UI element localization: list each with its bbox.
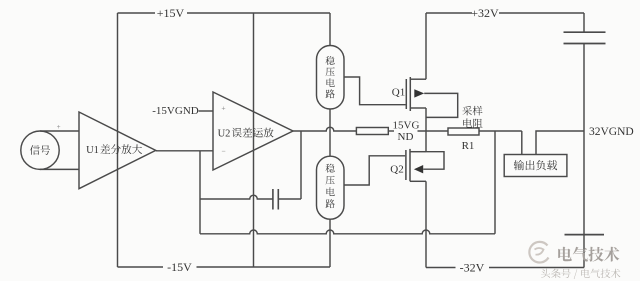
power rail +15V bbox=[118, 12, 156, 14]
op-amp U2 误差运放 bbox=[213, 92, 293, 170]
transistor Q1 gate bar bbox=[405, 79, 407, 109]
value label 采样电阻 bbox=[462, 106, 482, 116]
wire +32V rail to output capacitor bbox=[583, 13, 585, 32]
watermark logo circle bbox=[529, 242, 548, 263]
transistor Q1 drain lead bbox=[410, 78, 426, 80]
power rail +32V bbox=[426, 12, 472, 14]
svg-text:15VG: 15VG bbox=[393, 120, 420, 132]
svg-text:R1: R1 bbox=[462, 140, 475, 152]
transistor Q2 gate bar bbox=[405, 150, 407, 180]
wire capacitor to U2 output node bbox=[300, 131, 302, 199]
ground bar 32VGND termination bbox=[565, 234, 605, 236]
wire 32VGND bar to -32V rail bbox=[583, 235, 585, 268]
wire feedback branch vertical from U1-U2 net down bbox=[199, 151, 201, 234]
wire capacitor to 32VGND bar bbox=[583, 44, 585, 235]
wire capacitor left segment (hops U2 supply line) bbox=[200, 195, 273, 199]
wire load to 32VGND line bbox=[536, 131, 584, 155]
load box 输出负载 bbox=[504, 155, 567, 177]
watermark 电气技术 bbox=[558, 247, 619, 262]
wire U1 output to U2 inverting input bbox=[156, 150, 213, 152]
svg-text:Q1: Q1 bbox=[392, 86, 405, 98]
wire U2 output (hops regulator chain) bbox=[292, 127, 356, 131]
transistor Q2 channel bar bbox=[409, 149, 411, 181]
wire Q1 drain to +32V rail bbox=[425, 13, 427, 79]
transistor Q1 source lead bbox=[410, 107, 426, 109]
wire Q2 drain to -32V rail (hopped by return line) bbox=[425, 181, 427, 267]
wire 15VGND label to output node bbox=[418, 130, 449, 132]
svg-text:U1: U1 bbox=[86, 145, 99, 156]
wire output node down to load bbox=[521, 131, 523, 155]
wire R1 to load node bbox=[479, 130, 522, 132]
svg-text:+: + bbox=[221, 103, 225, 112]
regulator block 稳压电路 (top) bbox=[317, 46, 345, 110]
transistor Q1 channel bar bbox=[409, 77, 411, 111]
wire -15VGND to U2 non-inverting input bbox=[199, 110, 214, 112]
transistor Q2 body-source loop bbox=[423, 152, 444, 170]
wire top regulator to Q1 gate bbox=[345, 77, 406, 105]
svg-text:+32V: +32V bbox=[471, 6, 499, 20]
svg-text:32VGND: 32VGND bbox=[589, 126, 634, 138]
wire resistor to 15VGND label bbox=[388, 130, 394, 132]
wire bottom regulator to -15V rail (hops return line) bbox=[329, 219, 331, 267]
wire signal to U1 top input bbox=[40, 130, 79, 132]
wire top regulator to bottom regulator (crosses U2 output) bbox=[329, 109, 331, 156]
wire Q1 source to output node bbox=[425, 108, 427, 131]
wire signal to U1 bottom input bbox=[40, 168, 79, 170]
watermark 头条号/电气技术 bbox=[541, 269, 620, 279]
power rail -15V bbox=[118, 266, 164, 268]
capacitor C2 output plates bbox=[564, 31, 606, 33]
transistor Q2 drain lead bbox=[410, 180, 426, 182]
svg-text:-15V: -15V bbox=[167, 260, 192, 274]
wire capacitor right segment bbox=[278, 198, 301, 200]
svg-text:+15V: +15V bbox=[157, 6, 185, 20]
wire +15V rail down to top regulator bbox=[329, 13, 331, 46]
svg-text:−: − bbox=[221, 147, 225, 156]
svg-text:-15VGND: -15VGND bbox=[152, 105, 198, 117]
svg-text:U2: U2 bbox=[218, 129, 231, 140]
transistor Q1 body-source loop bbox=[424, 93, 458, 117]
transistor Q2 source lead bbox=[410, 151, 426, 153]
svg-text:ND: ND bbox=[398, 131, 414, 143]
wire U2 supply vertical (+15V to -15V through U2) bbox=[253, 13, 255, 267]
svg-text:+: + bbox=[57, 123, 61, 131]
power rail -32V bbox=[426, 267, 456, 269]
wire return line up to output node bbox=[494, 131, 496, 234]
signal source 信号 bbox=[21, 131, 59, 169]
svg-text:Q2: Q2 bbox=[390, 164, 403, 176]
transistor Q1 body arrow bbox=[414, 89, 424, 97]
wire Q2 source to output node bbox=[425, 131, 427, 152]
transistor Q2 body arrow bbox=[414, 165, 423, 173]
regulator block 稳压电路 (bottom) bbox=[317, 156, 345, 219]
resistor (U2 output series) bbox=[356, 128, 388, 135]
wire bottom regulator to Q2 gate bbox=[345, 156, 406, 185]
op-amp U1 差分放大 bbox=[79, 112, 156, 189]
svg-text:-32V: -32V bbox=[460, 261, 485, 275]
wire return line (15VGND return, hops crossing verticals) bbox=[200, 230, 495, 234]
capacitor C1 feedback plates bbox=[272, 189, 274, 210]
resistor R1 sampling bbox=[448, 128, 479, 135]
wire left supply vertical (+15V to -15V through U1) bbox=[117, 13, 119, 267]
